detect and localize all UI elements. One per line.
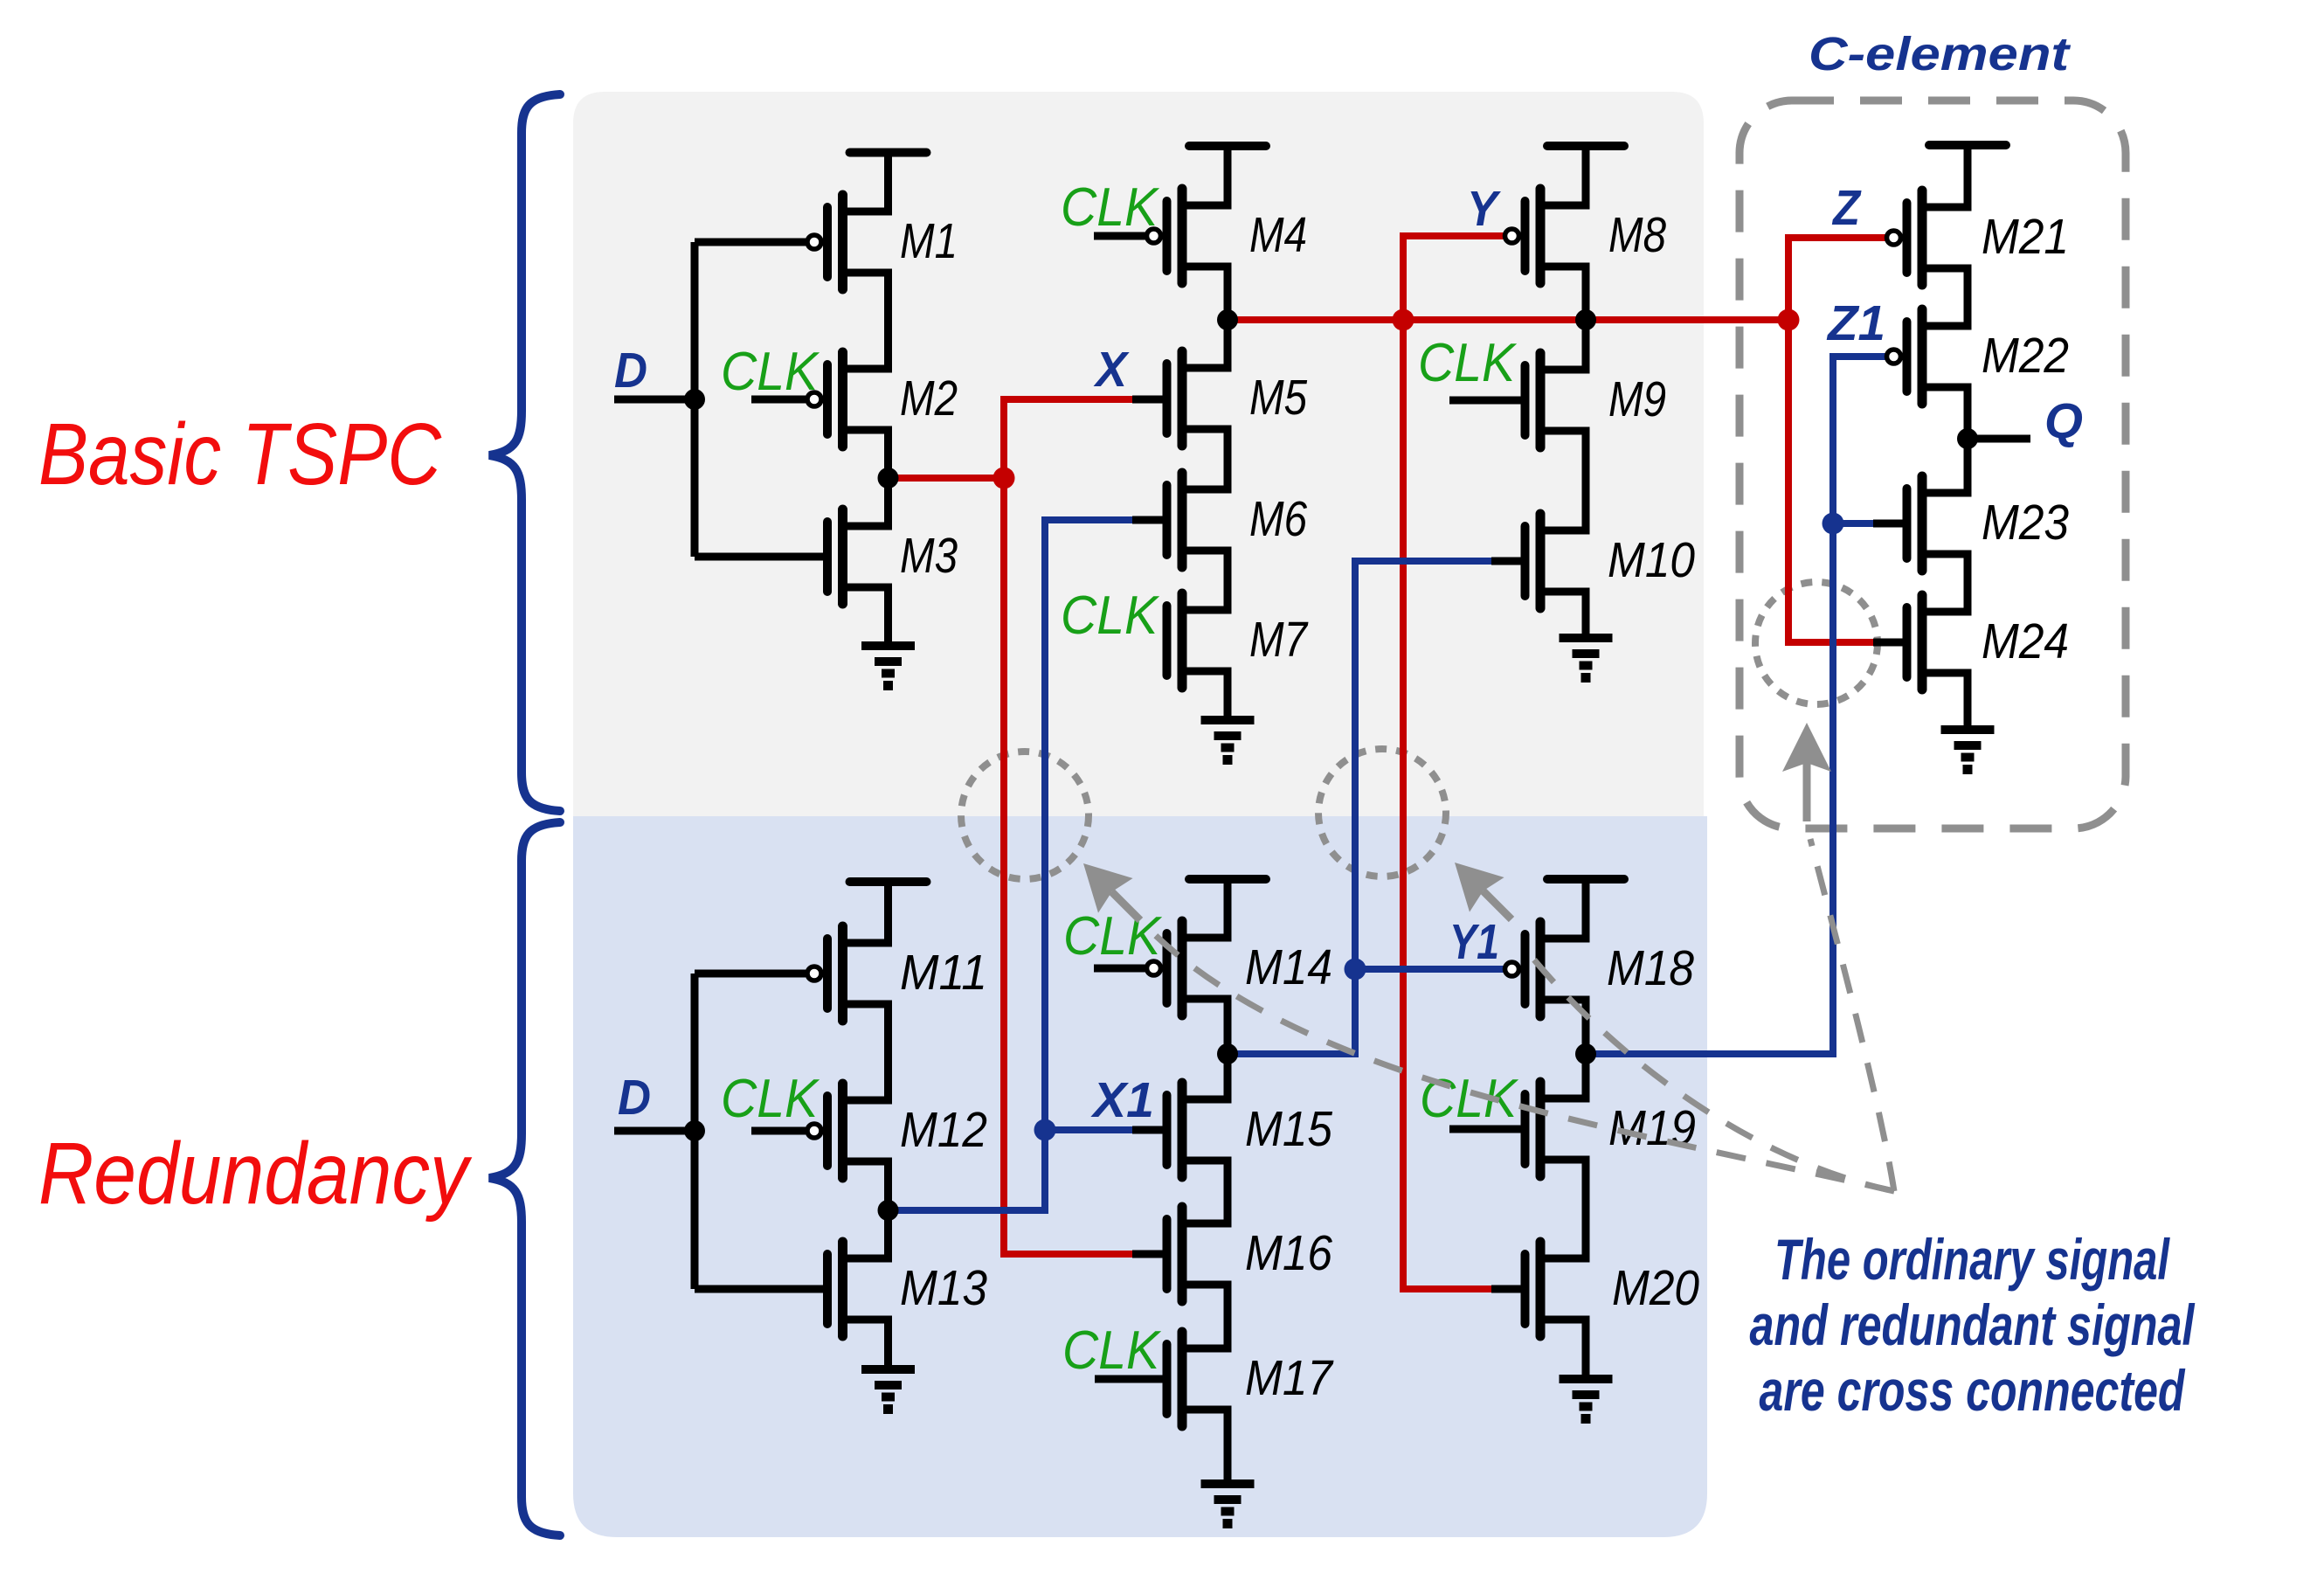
wire: Y1 to M10 gate (blue) xyxy=(1355,561,1495,969)
node M14/M15 junction xyxy=(1217,1043,1238,1064)
svg-text:M13: M13 xyxy=(900,1260,987,1316)
svg-text:X: X xyxy=(1093,342,1130,398)
wire: Y1 black gate stub M10 xyxy=(1491,558,1521,565)
wire: M12/M13 node to X1 (blue) xyxy=(889,1207,1046,1214)
wire: M12-M13 link xyxy=(884,1161,892,1258)
svg-text:Q: Q xyxy=(2044,393,2083,449)
svg-text:M16: M16 xyxy=(1245,1225,1332,1281)
transistor M20 (NMOS) xyxy=(1525,1242,1587,1336)
transistor M18 (PMOS) xyxy=(1505,922,1587,1016)
svg-text:M7: M7 xyxy=(1249,612,1309,668)
svg-text:CLK: CLK xyxy=(1061,586,1159,646)
svg-text:CLK: CLK xyxy=(1061,177,1159,238)
wire: M19-M20 link xyxy=(1582,1161,1590,1258)
ground under M3 xyxy=(861,587,915,686)
svg-text:D: D xyxy=(618,1070,651,1126)
svg-text:CLK: CLK xyxy=(1063,906,1162,967)
node Z (red) xyxy=(1778,309,1800,331)
svg-text:are cross connected: are cross connected xyxy=(1760,1358,2186,1423)
transistor M16 (NMOS) xyxy=(1167,1207,1228,1301)
VDD rail col M18 xyxy=(1547,879,1624,939)
VDD rail col M11 xyxy=(850,882,927,943)
transistor M13 (NMOS) xyxy=(827,1242,889,1336)
svg-text:M4: M4 xyxy=(1249,207,1307,263)
transistor M12 (PMOS) xyxy=(807,1084,889,1178)
svg-text:Z1: Z1 xyxy=(1826,295,1885,351)
wire: M11-M12 link xyxy=(884,1004,892,1100)
wire: M9-M10 link xyxy=(1582,431,1590,530)
dashed circle: X/X1 cross-connection xyxy=(961,752,1089,879)
C-element dashed box xyxy=(1740,100,2126,828)
svg-text:CLK: CLK xyxy=(1062,1320,1161,1381)
background panel: Basic TSPC section xyxy=(573,92,1704,816)
node X (red) xyxy=(993,468,1015,489)
annotation dashed leader to crossing circle 1 xyxy=(1153,933,1894,1191)
wire: Q output xyxy=(1968,435,2030,443)
svg-text:M14: M14 xyxy=(1245,939,1332,995)
node M18/M19 junction xyxy=(1575,1043,1596,1064)
wire: Z1 net (blue) xyxy=(1586,357,1886,1054)
svg-text:M11: M11 xyxy=(900,945,987,1001)
svg-text:Basic TSPC: Basic TSPC xyxy=(38,405,442,503)
wire: X black gate stub M5 xyxy=(1132,396,1163,404)
svg-text:M24: M24 xyxy=(1982,613,2069,669)
node Y (red) xyxy=(1393,309,1414,331)
wire: X1 black gate stub M6 xyxy=(1132,516,1163,524)
node M4/M5 junction xyxy=(1217,309,1238,330)
wire: X1 to M6 gate (blue) xyxy=(889,520,1137,1210)
transistor M22 (PMOS) xyxy=(1887,309,1968,404)
svg-text:M23: M23 xyxy=(1982,495,2069,551)
transistor M10 (NMOS) xyxy=(1525,514,1587,608)
brace: Basic TSPC section xyxy=(489,94,560,811)
svg-text:Y: Y xyxy=(1467,181,1502,237)
svg-text:M20: M20 xyxy=(1612,1260,1699,1316)
wire: M4-M5 link xyxy=(1224,267,1232,368)
node Y1 (blue) xyxy=(1345,959,1366,981)
transistor M17 (NMOS) xyxy=(1167,1332,1228,1426)
wire: M14-M15 link xyxy=(1224,999,1232,1099)
wire: M6-M7 link xyxy=(1224,551,1232,610)
annotation dashed leader to C-element circle xyxy=(1810,839,1894,1191)
wire: Z black gate stub M24 xyxy=(1873,639,1903,647)
annotation arrow 3 (points at C-element circle) xyxy=(1782,723,1831,821)
svg-text:and redundant signal: and redundant signal xyxy=(1750,1292,2196,1357)
svg-text:M15: M15 xyxy=(1245,1101,1332,1157)
wire: Z1 branch to M23 gate (blue) xyxy=(1833,520,1877,527)
ground under M24 xyxy=(1941,673,1995,770)
wire: Y branch to M8 gate (red) xyxy=(1403,236,1504,320)
brace: Redundancy section xyxy=(489,822,560,1535)
wire: D gate bus (bottom) xyxy=(695,974,823,1289)
svg-text:Y1: Y1 xyxy=(1449,914,1499,970)
svg-text:Z: Z xyxy=(1831,180,1862,236)
wire: CLK gate stub M4 xyxy=(1094,232,1146,240)
transistor M11 (PMOS) xyxy=(807,926,889,1021)
svg-text:M9: M9 xyxy=(1608,371,1666,427)
transistor M5 (NMOS) xyxy=(1167,351,1228,446)
wire: M3 node to X xyxy=(889,475,1005,482)
transistor M8 (PMOS) xyxy=(1505,189,1587,283)
wire: CLK gate stub M12 xyxy=(751,1127,806,1135)
annotation dashed leader to crossing circle 2 xyxy=(1525,948,1894,1191)
VDD rail col M1 xyxy=(850,153,927,212)
wire: CLK gate stub M2 xyxy=(751,396,806,404)
transistor M14 (PMOS) xyxy=(1147,921,1228,1015)
background panel: Redundancy section xyxy=(573,816,1707,1537)
VDD rail col M14 xyxy=(1189,879,1266,938)
wire: M15-M16 link xyxy=(1224,1161,1232,1223)
dashed circle: Z/Z1 cross-connection xyxy=(1755,582,1878,704)
svg-text:X1: X1 xyxy=(1090,1072,1154,1128)
transistor M1 (PMOS) xyxy=(807,195,889,289)
svg-text:CLK: CLK xyxy=(1420,1069,1518,1129)
dashed circle: Y/Y1 cross-connection xyxy=(1318,749,1446,877)
wire: Z1 black gate stub M23 xyxy=(1873,520,1903,528)
svg-text:CLK: CLK xyxy=(1418,333,1517,393)
wire: M1-M2 link xyxy=(884,273,892,369)
transistor M21 (PMOS) xyxy=(1887,191,1968,285)
ground under M20 xyxy=(1560,1320,1613,1419)
wire: CLK gate stub M9 xyxy=(1449,397,1521,405)
wire: M18-M19 link xyxy=(1582,1000,1590,1099)
svg-text:M21: M21 xyxy=(1982,209,2069,265)
wire: X black gate stub M16 xyxy=(1132,1251,1163,1258)
ground under M13 xyxy=(861,1320,915,1410)
transistor M9 (NMOS) xyxy=(1525,353,1587,447)
transistor M19 (NMOS) xyxy=(1525,1082,1587,1176)
transistor M2 (PMOS) xyxy=(807,352,889,447)
svg-text:M17: M17 xyxy=(1245,1350,1334,1406)
transistor M4 (PMOS) xyxy=(1147,189,1228,283)
svg-text:C-element: C-element xyxy=(1809,28,2071,80)
svg-text:M1: M1 xyxy=(900,213,958,269)
svg-text:M2: M2 xyxy=(900,371,958,426)
wire: Y branch to M20 gate (red) xyxy=(1403,320,1495,1289)
wire: Y black gate stub M20 xyxy=(1491,1285,1521,1293)
wire: CLK gate stub M17 xyxy=(1095,1376,1163,1383)
ground under M10 xyxy=(1560,592,1613,678)
svg-text:M18: M18 xyxy=(1607,940,1694,996)
transistor M7 (NMOS) xyxy=(1167,593,1228,688)
wire: M2-M3 link xyxy=(884,430,892,526)
svg-text:M22: M22 xyxy=(1982,328,2069,384)
node D (bottom) xyxy=(684,1120,705,1141)
svg-text:The ordinary signal: The ordinary signal xyxy=(1774,1227,2170,1292)
svg-text:M6: M6 xyxy=(1249,491,1307,547)
node X1 (blue) xyxy=(1034,1119,1056,1141)
svg-text:CLK: CLK xyxy=(721,1069,820,1129)
wire: X1 branch to M15 gate (blue) xyxy=(1045,1126,1136,1133)
svg-text:M5: M5 xyxy=(1249,370,1307,426)
wire: Z branch to M24 gate (red) xyxy=(1788,320,1877,642)
ground under M7 xyxy=(1201,671,1255,760)
svg-text:D: D xyxy=(614,343,647,398)
wire: Y main (red) xyxy=(1228,316,1788,323)
annotation arrow 2 (points at circle 2) xyxy=(1455,863,1511,919)
wire: D gate bus (top) xyxy=(695,242,823,557)
wire: M23-M24 link xyxy=(1964,554,1972,612)
transistor M15 (NMOS) xyxy=(1167,1083,1228,1177)
svg-text:Redundancy: Redundancy xyxy=(38,1125,473,1223)
VDD rail col M4 xyxy=(1189,146,1266,205)
wire: Y1 from M14/M15 node (blue) xyxy=(1228,969,1504,1054)
svg-text:M12: M12 xyxy=(900,1102,987,1158)
transistor M24 (NMOS) xyxy=(1907,595,1968,689)
wire: M21-M22 link xyxy=(1964,268,1972,326)
node D (top) xyxy=(684,389,705,410)
ground under M17 xyxy=(1201,1410,1255,1524)
VDD rail col M8 xyxy=(1547,146,1624,205)
wire: X1 black gate stub M15 xyxy=(1132,1126,1163,1134)
wire: CLK gate stub M19 xyxy=(1449,1126,1521,1133)
annotation arrow 1 (points at circle 1) xyxy=(1083,863,1140,920)
svg-text:M10: M10 xyxy=(1608,532,1695,588)
wire: Z branch to M21 gate (red) xyxy=(1788,238,1886,320)
wire: M8-M9 link xyxy=(1582,267,1590,370)
wire: X net (red) xyxy=(1004,399,1136,1254)
node M2/M3 junction xyxy=(878,468,899,489)
wire: D input (bottom) xyxy=(614,1127,695,1135)
transistor M23 (NMOS) xyxy=(1907,476,1968,571)
transistor M6 (NMOS) xyxy=(1167,473,1228,567)
wire: M16-M17 link xyxy=(1224,1285,1232,1348)
svg-text:M3: M3 xyxy=(900,528,958,584)
node M12/M13 junction xyxy=(878,1200,899,1221)
wire: D input (top) xyxy=(614,396,695,404)
svg-text:M8: M8 xyxy=(1608,207,1666,263)
wire: M22-M23 link (Q node) xyxy=(1964,387,1972,493)
transistor M3 (NMOS) xyxy=(827,509,889,604)
wire: CLK gate stub M14 xyxy=(1094,965,1146,973)
VDD rail col M21 xyxy=(1929,145,2006,207)
wire: M5-M6 link xyxy=(1224,429,1232,489)
node Z1 (blue) xyxy=(1823,513,1844,535)
svg-text:CLK: CLK xyxy=(721,342,820,402)
node Q xyxy=(1957,428,1978,449)
node M8/M9 junction xyxy=(1575,309,1596,330)
